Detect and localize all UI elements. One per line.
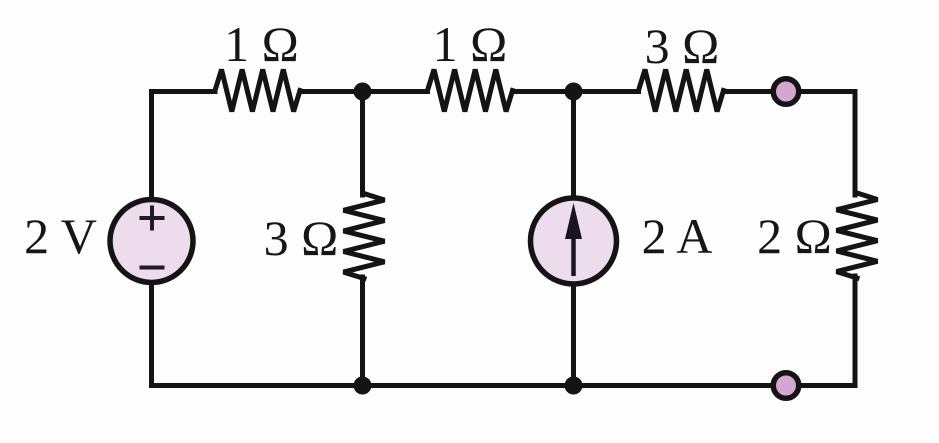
terminal b (open node, bottom right) — [773, 373, 799, 399]
svg-text:1 Ω: 1 Ω — [224, 16, 299, 72]
wire: R4 to bottom node A2 — [360, 277, 365, 386]
wire: R2 to node B to R3 — [513, 89, 639, 94]
wire: bottom rail (terminal b to bottom-left corner, up to voltage source) — [152, 241, 787, 386]
voltage source minus sign — [140, 266, 165, 270]
junction dot: bottom node B2 — [565, 377, 583, 395]
junction dot: node A (top of R4) — [354, 83, 372, 101]
svg-text:3 Ω: 3 Ω — [645, 18, 720, 74]
current source I1 (2 A) circle — [531, 198, 617, 284]
wire: R1 to node A to R2 — [300, 89, 428, 94]
wire: top rail left segment (left corner to R1) — [152, 92, 216, 242]
wire: R3 to terminal a — [724, 89, 787, 94]
junction dot: node B (top of current source) — [565, 83, 583, 101]
svg-text:2 Ω: 2 Ω — [757, 208, 832, 264]
terminal a (open node, top right) — [773, 79, 799, 105]
wire: R5 to bottom-right corner to terminal b — [786, 276, 855, 386]
svg-text:2 V: 2 V — [24, 208, 97, 264]
resistor R2 1 ohm (top-middle horizontal zigzag) — [428, 70, 513, 112]
current source arrow shaft — [571, 230, 576, 276]
wire: node B down through current source to bottom node B2 — [571, 92, 576, 386]
wire: terminal a to top-right corner, down to R5 — [786, 92, 855, 196]
svg-text:1 Ω: 1 Ω — [433, 16, 508, 72]
resistor R4 3 ohm (vertical zigzag below node A) — [344, 194, 385, 279]
resistor R1 1 ohm (top-left horizontal zigzag) — [215, 70, 300, 112]
current source arrow head — [565, 203, 582, 239]
junction dot: bottom node A2 — [354, 377, 372, 395]
wire: node A down to R4 — [360, 92, 365, 196]
resistor R3 3 ohm (top-right horizontal zigzag) — [639, 70, 724, 112]
resistor R5 2 ohm (vertical zigzag, right branch) — [837, 193, 878, 278]
voltage source V1 (2 V) circle — [110, 200, 193, 283]
svg-text:2 A: 2 A — [642, 208, 713, 264]
voltage source plus sign — [140, 206, 165, 231]
svg-text:3 Ω: 3 Ω — [264, 210, 339, 266]
